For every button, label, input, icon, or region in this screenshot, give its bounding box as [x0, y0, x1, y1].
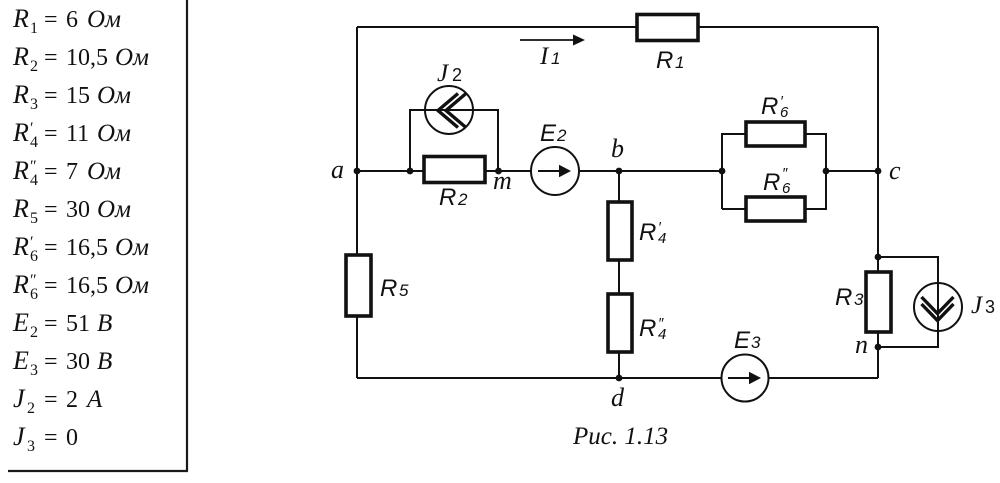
- value label R3 = 15 Om: [12, 80, 131, 113]
- svg-text:R: R: [835, 284, 852, 311]
- node n junction: [875, 344, 882, 351]
- svg-text:5: 5: [399, 281, 409, 300]
- svg-text:=: =: [44, 349, 58, 375]
- wire left vertical (a branch with R5): [356, 27, 358, 378]
- wire bottom (d row): [357, 377, 878, 379]
- current source J2 circle: [425, 86, 473, 134]
- svg-text:Ом: Ом: [115, 44, 149, 71]
- svg-text:3: 3: [751, 333, 761, 352]
- svg-text:2: 2: [30, 58, 38, 75]
- wire R4 branch (b to d): [618, 171, 620, 378]
- data table border right: [186, 0, 188, 471]
- value label R4' = 11 Om: [12, 118, 131, 151]
- value label E3 = 30 V: [12, 346, 112, 379]
- svg-text:2: 2: [452, 65, 462, 85]
- EMF source E3 circle: [722, 355, 769, 402]
- svg-text:=: =: [44, 387, 58, 413]
- svg-text:=: =: [44, 425, 58, 451]
- E2 arrow: [538, 170, 562, 172]
- svg-text:Ом: Ом: [97, 196, 131, 223]
- svg-text:m: m: [493, 166, 512, 195]
- resistor R4': [608, 202, 632, 260]
- svg-text:4: 4: [30, 172, 38, 189]
- svg-text:Ом: Ом: [115, 234, 149, 261]
- svg-text:R: R: [763, 169, 780, 196]
- svg-text:11: 11: [66, 121, 89, 147]
- svg-text:6: 6: [30, 286, 38, 303]
- value label J3 = 0: [13, 422, 78, 455]
- svg-text:=: =: [44, 311, 58, 337]
- svg-text:5: 5: [30, 210, 38, 227]
- svg-text:1: 1: [551, 49, 560, 68]
- wire R6 parallel loop: [722, 134, 826, 209]
- svg-text:2: 2: [30, 324, 38, 341]
- svg-text:n: n: [855, 330, 868, 359]
- resistor R3: [866, 272, 891, 332]
- svg-text:6: 6: [782, 180, 791, 197]
- wire J3 loop: [878, 257, 938, 347]
- value label R5 = 30 Om: [12, 194, 131, 227]
- svg-text:=: =: [44, 121, 58, 147]
- svg-text:1: 1: [30, 20, 38, 37]
- svg-text:E: E: [12, 346, 29, 375]
- svg-text:R: R: [12, 194, 29, 223]
- svg-text:2: 2: [66, 387, 78, 413]
- svg-text:=: =: [44, 235, 58, 261]
- svg-text:a: a: [331, 155, 344, 184]
- R6 left junction: [719, 168, 726, 175]
- value label E2 = 51 V: [12, 308, 112, 341]
- R6 right junction: [823, 168, 830, 175]
- value label J2 = 2 A: [13, 384, 103, 417]
- node c junction: [875, 168, 882, 175]
- svg-text:6: 6: [66, 7, 78, 33]
- svg-text:E: E: [734, 327, 751, 354]
- svg-text:R: R: [639, 315, 656, 342]
- svg-text:E: E: [12, 308, 29, 337]
- svg-text:3: 3: [854, 290, 864, 309]
- value label R2 = 10,5 Om: [12, 42, 149, 75]
- resistor R6': [746, 122, 805, 146]
- svg-text:J: J: [13, 384, 26, 413]
- svg-text:4: 4: [658, 230, 666, 247]
- svg-text:Рис. 1.13: Рис. 1.13: [572, 423, 668, 450]
- svg-text:15: 15: [66, 83, 90, 109]
- svg-text:16,5: 16,5: [66, 235, 108, 261]
- svg-text:R: R: [12, 42, 29, 71]
- svg-text:3: 3: [30, 362, 38, 379]
- svg-text:Ом: Ом: [87, 158, 121, 185]
- svg-text:6: 6: [30, 248, 38, 265]
- svg-text:6: 6: [780, 104, 789, 121]
- resistor R5: [346, 255, 371, 316]
- resistor R6'': [746, 197, 805, 221]
- svg-text:51: 51: [66, 311, 90, 337]
- svg-text:3: 3: [985, 297, 995, 317]
- svg-text:E: E: [540, 120, 557, 147]
- svg-text:3: 3: [27, 438, 35, 455]
- svg-text:R: R: [12, 80, 29, 109]
- svg-text:1: 1: [675, 53, 684, 72]
- E3 arrow: [728, 377, 752, 379]
- svg-text:Ом: Ом: [97, 82, 131, 109]
- svg-text:16,5: 16,5: [66, 273, 108, 299]
- svg-text:R: R: [439, 184, 456, 211]
- svg-text:4: 4: [658, 326, 666, 343]
- EMF source E2 circle: [531, 147, 579, 195]
- svg-text:d: d: [611, 383, 625, 412]
- svg-text:4: 4: [30, 134, 38, 151]
- svg-text:2: 2: [27, 400, 35, 417]
- svg-text:R: R: [639, 219, 656, 246]
- R3 top junction: [875, 254, 882, 261]
- node a junction: [354, 168, 361, 175]
- svg-text:=: =: [44, 7, 58, 33]
- svg-text:R: R: [12, 270, 29, 299]
- current source J3 circle: [914, 283, 962, 331]
- svg-text:R: R: [656, 47, 673, 74]
- value label R4'' = 7 Om: [12, 156, 121, 189]
- svg-text:=: =: [44, 159, 58, 185]
- node b junction: [616, 168, 623, 175]
- resistor R4'': [608, 294, 632, 352]
- svg-text:R: R: [12, 156, 29, 185]
- resistor R1: [637, 15, 698, 41]
- svg-text:J: J: [13, 422, 26, 451]
- value label R6'' = 16,5 Om: [12, 270, 149, 303]
- svg-text:30: 30: [66, 349, 90, 375]
- svg-text:R: R: [12, 232, 29, 261]
- data table border bottom: [8, 470, 188, 472]
- node m junction: [495, 168, 502, 175]
- svg-text:=: =: [44, 45, 58, 71]
- svg-text:J: J: [437, 60, 450, 87]
- value label R1 = 6 Om: [12, 4, 121, 37]
- svg-text:В: В: [97, 348, 112, 375]
- J2 left junction: [407, 168, 414, 175]
- svg-text:b: b: [611, 134, 624, 163]
- wire top (a-corner to c-corner): [357, 26, 878, 28]
- svg-text:7: 7: [66, 159, 78, 185]
- svg-text:В: В: [97, 310, 112, 337]
- J2 double chevron: [438, 94, 466, 128]
- svg-text:R: R: [12, 118, 29, 147]
- wire right vertical (c branch with R3): [877, 27, 879, 378]
- value label R6' = 16,5 Om: [12, 232, 149, 265]
- svg-text:А: А: [85, 386, 103, 413]
- svg-text:=: =: [44, 197, 58, 223]
- svg-text:2: 2: [457, 190, 468, 209]
- J3 double chevron: [922, 297, 954, 321]
- svg-text:2: 2: [556, 126, 567, 145]
- svg-text:Ом: Ом: [97, 120, 131, 147]
- svg-text:0: 0: [66, 425, 78, 451]
- svg-text:=: =: [44, 83, 58, 109]
- svg-text:R: R: [380, 275, 397, 302]
- svg-text:J: J: [971, 292, 984, 319]
- current arrow I1: [520, 39, 575, 41]
- svg-text:Ом: Ом: [115, 272, 149, 299]
- svg-text:10,5: 10,5: [66, 45, 108, 71]
- svg-text:Ом: Ом: [87, 6, 121, 33]
- svg-text:3: 3: [30, 96, 38, 113]
- wire middle (R6 right junction to c): [826, 170, 878, 172]
- resistor R2: [424, 157, 485, 183]
- wire middle (a-m-b row): [357, 170, 722, 172]
- svg-text:30: 30: [66, 197, 90, 223]
- svg-text:R: R: [12, 4, 29, 33]
- svg-text:c: c: [889, 156, 901, 185]
- node d junction: [616, 375, 623, 382]
- svg-text:=: =: [44, 273, 58, 299]
- svg-text:R: R: [761, 93, 778, 120]
- wire J2 loop: [410, 110, 498, 171]
